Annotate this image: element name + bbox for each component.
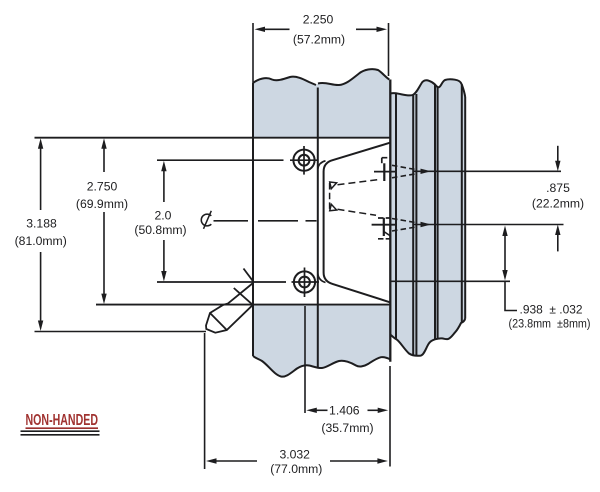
svg-text:3.188: 3.188 [26,216,57,230]
svg-text:3.032: 3.032 [279,447,310,461]
svg-text:(77.0mm): (77.0mm) [270,462,322,476]
svg-text:(23.8mm ±8mm): (23.8mm ±8mm) [509,317,591,331]
svg-text:2.0: 2.0 [155,208,172,222]
svg-text:(50.8mm): (50.8mm) [134,223,186,237]
svg-text:(57.2mm): (57.2mm) [293,33,345,47]
svg-text:NON-HANDED: NON-HANDED [26,412,99,429]
svg-text:2.750: 2.750 [87,179,118,193]
svg-text:.938 ± .032: .938 ± .032 [520,303,583,317]
svg-text:1.406: 1.406 [329,403,360,417]
svg-text:(35.7mm): (35.7mm) [321,421,373,435]
svg-text:.875: .875 [546,181,570,195]
svg-text:(81.0mm): (81.0mm) [15,234,67,248]
svg-text:2.250: 2.250 [303,13,334,27]
svg-text:(69.9mm): (69.9mm) [76,197,128,211]
svg-text:(22.2mm): (22.2mm) [532,196,584,210]
